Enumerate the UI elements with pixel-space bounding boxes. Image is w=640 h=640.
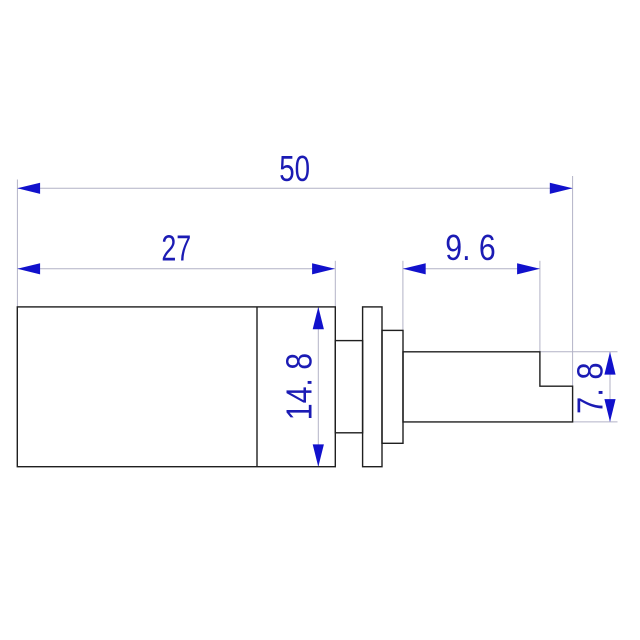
dimension line 9.6: [403, 268, 540, 270]
arrow 50 left: [17, 183, 40, 194]
body divider line: [256, 307, 258, 467]
arrow 50 right: [550, 183, 573, 194]
flange: [363, 307, 382, 467]
extension line body right edge (for 27 dim): [334, 261, 336, 307]
extension line shaft start (for 9.6 dim): [402, 261, 404, 331]
svg-text:27: 27: [161, 228, 191, 269]
dimension line 7.8: [609, 352, 611, 422]
svg-text:7. 8: 7. 8: [570, 362, 611, 414]
extension line shaft bottom (for 7.8 dim): [573, 421, 618, 423]
arrow 7.8 top: [604, 352, 615, 375]
dimension line 27: [17, 268, 335, 270]
bushing: [382, 330, 403, 443]
component body rectangle: [17, 307, 335, 467]
arrow 27 left: [17, 263, 40, 274]
extension line shaft step (for 9.6 dim): [539, 261, 541, 352]
arrow 14.8 bottom: [313, 444, 324, 466]
neck section: [335, 341, 362, 433]
arrow 14.8 top: [313, 307, 324, 329]
arrow 9.6 left: [403, 263, 426, 274]
arrow 7.8 bottom: [604, 399, 615, 422]
dimension line 50: [17, 187, 572, 189]
arrow 9.6 right: [517, 263, 540, 274]
extension line left (body left edge, for 50 and 27 dims): [16, 180, 18, 307]
extension line shaft tip (for 50 dim): [572, 176, 574, 386]
extension line shaft top (for 7.8 dim): [540, 351, 618, 353]
svg-text:50: 50: [279, 148, 310, 189]
svg-text:14. 8: 14. 8: [279, 353, 320, 420]
arrow 27 right: [312, 263, 335, 274]
dimension line 14.8: [317, 307, 319, 467]
shaft with stepped tip: [403, 352, 573, 422]
svg-text:9. 6: 9. 6: [445, 227, 496, 268]
